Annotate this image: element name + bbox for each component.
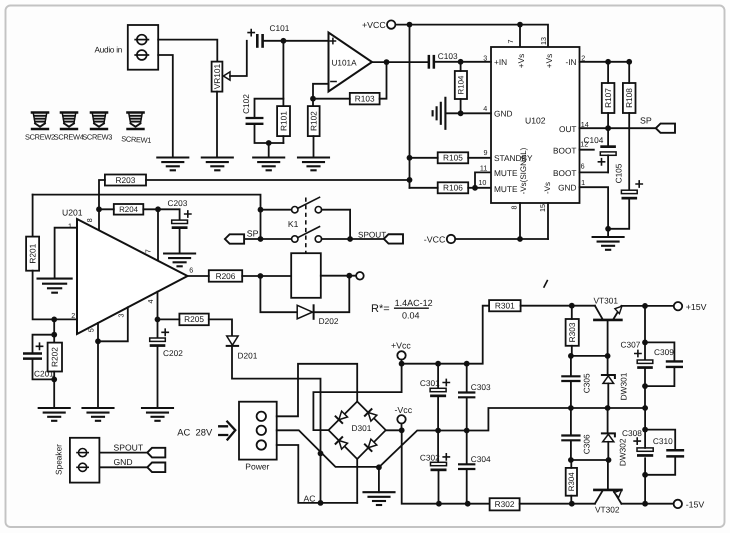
svg-text:DW301: DW301 [619,372,629,400]
svg-text:SCREW2: SCREW2 [25,132,55,141]
svg-text:K1: K1 [288,219,299,229]
wire +Vcc stem [401,360,403,364]
potentiometer VR101 [212,62,223,92]
wire R102 bottom to ground [313,136,315,157]
wire R304 stem top [570,460,572,468]
resistor R302 [490,498,520,510]
dashed actuator link [305,198,307,254]
wire R108 stem to C105 [628,113,630,191]
screw SCREW4 [61,113,77,130]
connector Audio in [95,25,159,70]
capacitor C304 [459,431,491,504]
tag GND speaker [147,463,165,473]
capacitor C310 [653,436,683,457]
wire R107 stem bottom [607,113,609,128]
wire -Vcc stem [401,424,403,431]
svg-text:C202: C202 [163,348,183,358]
resistor R101 [277,106,290,136]
node SP lower [258,236,264,242]
svg-text:C102: C102 [241,94,251,114]
node SPOUT [347,236,353,242]
svg-text:U102: U102 [525,116,546,126]
wire pin7 drop [519,25,521,47]
wire lower contact [244,238,292,240]
resistor R206 [209,270,242,282]
svg-text:4: 4 [146,300,155,304]
terminal +VCC [362,20,395,30]
capacitor C305 [562,356,591,408]
svg-text:7: 7 [144,249,153,253]
ground R102 [298,158,329,171]
op-amp U201 [77,219,188,334]
capacitor C103 [428,51,458,69]
wire R204 left [99,208,114,210]
wire pin8 stem [98,209,100,230]
wire C310 branch bottom [645,458,675,475]
svg-text:3: 3 [483,53,487,62]
wire D202 to coil out [314,276,350,313]
svg-text:C104: C104 [584,135,604,145]
terminal +Vcc [391,341,411,360]
wire R302 to VT302 [520,503,595,505]
arrow AC input [219,422,235,440]
wire R103 left [313,98,350,100]
node R104 gnd pin4 [458,110,464,116]
node R104 top [458,59,464,65]
svg-text:-IN: -IN [565,57,576,67]
svg-text:DW302: DW302 [618,438,628,466]
svg-text:C301: C301 [420,378,440,388]
node D201 AC [318,500,324,506]
resistor R205 [179,314,208,326]
screw SCREW3 [91,113,107,130]
node R202 top [51,332,57,338]
wire power pin1 to bridge AC [277,364,358,417]
wire C309 branch bottom [645,368,674,386]
wire pin1 U201 [55,228,77,279]
ground C102/R101 [253,158,284,171]
ground VR101 [202,158,233,171]
wire audio pin2 to ground [158,55,173,158]
node bus R105 [407,155,413,161]
wire pin4 GND [445,112,491,114]
node bus R203 [407,177,413,183]
svg-text:9: 9 [484,148,488,157]
node +Vcc [399,361,405,367]
wire R303 stem top [571,306,573,319]
wire R304 stem bottom [570,496,572,504]
wire pin3 [98,307,128,341]
ground power mid [364,492,395,505]
svg-text:C103: C103 [438,51,458,61]
svg-text:R107: R107 [603,88,613,108]
svg-text:R*=: R*= [371,303,390,315]
zener DW302 [602,408,628,466]
capacitor C303 [459,364,491,431]
svg-text:R201: R201 [27,243,37,263]
wire VT302 emitter rail [621,503,673,505]
wire R201 top [32,195,34,237]
wire R107 stem top [607,62,609,83]
wire pin11 jog [475,172,491,187]
node zener node left [568,353,574,359]
svg-text:SP: SP [247,229,259,239]
wire upper contact [261,209,292,211]
wire pin15 bottom [547,203,549,239]
capacitor C302 [420,431,450,504]
node C304 bottom [465,501,471,507]
wire R204 right [143,208,179,210]
node DW302 bottom [606,457,612,463]
svg-text:C309: C309 [654,347,674,357]
svg-text:MUTE: MUTE [494,184,518,194]
wire R101 bottom [282,136,284,143]
svg-text:VR101: VR101 [212,64,222,90]
capacitor C104 [584,128,617,172]
IC U102 [491,47,580,203]
node R304 bottom [569,501,575,507]
wire pin4 stem [157,292,159,320]
node D201 diag [318,451,324,457]
wire R106 right pin10 [468,187,491,189]
wire D201 to AC [232,346,321,503]
svg-text:GND: GND [114,457,133,467]
node zener node right [605,353,611,359]
svg-text:R102: R102 [309,111,319,131]
wire R103 right to output [380,62,387,99]
node C307 C309 top [642,340,648,346]
svg-text:SPOUT: SPOUT [114,442,144,452]
wire bridge to -Vcc [386,429,402,431]
wire C309 branch top [645,342,674,360]
relay coil K1 [291,253,321,298]
wire pin14 OUT [580,127,656,129]
switch K1 upper [292,197,322,213]
wire to U102 ground [607,229,609,237]
wire node down to R101 [282,41,284,106]
node coil out [346,273,352,279]
svg-text:SP: SP [640,116,652,126]
svg-text:C310: C310 [653,436,673,446]
node R108 top [626,59,632,65]
resistor R107 [602,83,615,113]
svg-text:VT302: VT302 [595,505,620,515]
wire coil right [321,275,356,277]
svg-text:1: 1 [68,221,72,230]
wire R201 bottom to pin2 [33,271,77,320]
wire VT301 emitter rail [621,305,673,307]
svg-text:BOOT: BOOT [553,168,577,178]
node C306 R304 [568,457,574,463]
capacitor C309 [654,347,682,367]
svg-text:SCREW4: SCREW4 [54,132,84,141]
resistor R108 [623,83,636,113]
node C203 [155,206,161,212]
wire pin8 bottom [519,203,521,239]
wire D202 branch [260,276,297,312]
diode D202 [297,305,339,326]
resistor R104 [455,71,467,99]
wire VR101 wiper to C101 [230,41,247,76]
svg-text:C308: C308 [622,428,642,438]
node pin5 pin3 [95,338,101,344]
svg-text:6: 6 [189,266,193,275]
node C308 rail [642,501,648,507]
node C307 mid [642,405,648,411]
svg-text:GND: GND [558,183,576,193]
wire VR101 bottom to ground [216,92,218,158]
svg-text:+IN: +IN [494,57,507,67]
node -Vcc [399,427,405,433]
connector Power [239,402,277,472]
svg-text:1: 1 [581,178,585,187]
wire pin6 BOOT [580,171,609,173]
terminal -15V [674,500,705,510]
diode D301 lower-left [336,437,348,449]
svg-text:R302: R302 [495,499,515,509]
svg-text:R105: R105 [443,153,463,163]
node C307 C309 bottom [642,383,648,389]
node DW mid [605,405,611,411]
ground R202/C201 [39,408,70,421]
node C308 C310 top [642,427,648,433]
svg-text:U101A: U101A [332,58,358,67]
wire R202 to ground [53,372,55,409]
op-amp U101A [329,33,373,92]
wire -VCC [455,238,548,240]
svg-text:AC: AC [304,494,316,504]
wire R104 stem top [460,62,462,71]
svg-text:R202: R202 [50,347,60,367]
wire pin5 to ground [97,323,99,408]
node C303 bottom [464,428,470,434]
node pin7 top [517,22,523,28]
node R203 R204 pin8 [96,206,102,212]
svg-text:+Vs: +Vs [516,54,526,69]
capacitor C306 [562,408,591,460]
wire pin7 stem [157,209,159,260]
zener DW301 [602,356,629,408]
ground C203 [164,254,195,267]
svg-text:C304: C304 [471,454,491,464]
wire R205 left [158,318,180,320]
wire mid line [379,408,645,467]
svg-text:-Vs: -Vs [543,182,552,194]
wire base node lower [571,459,609,461]
capacitor C203 [168,198,191,253]
svg-text:D301: D301 [352,423,372,433]
bridge D301 frame [329,402,386,460]
wire minus drop to rail [402,430,490,503]
wire R105 right pin9 [468,157,491,159]
node mid ground [376,464,382,470]
wire power pin3 AC line [277,445,358,503]
svg-text:AC 28V: AC 28V [177,426,213,437]
svg-text:R304: R304 [567,472,576,491]
resistor R105 [438,152,469,163]
svg-text:SPOUT: SPOUT [358,230,386,239]
screw SCREW2 [32,113,48,130]
diode D201 [227,336,258,360]
wire R105 left [410,157,438,159]
svg-text:C101: C101 [270,23,290,33]
svg-text:13: 13 [539,37,548,45]
svg-text:R203: R203 [116,175,136,185]
svg-text:8: 8 [85,218,94,222]
wire pin2 node down [53,319,55,342]
ground U201 pin1 [38,279,72,293]
transistor VT302 [594,460,621,515]
resistor R103 [350,93,380,105]
svg-text:+15V: +15V [686,302,707,312]
wire pin2 -IN [580,61,630,63]
svg-text:R301: R301 [495,301,515,311]
svg-text:R206: R206 [216,271,236,281]
ground audio pin2 [157,158,188,171]
node R303 top [569,303,575,309]
svg-text:SCREW3: SCREW3 [82,132,112,141]
diode D301 upper-left [336,411,348,423]
node C301 bottom [435,428,441,434]
node OUT [605,125,611,131]
transistor VT301 [594,296,622,356]
svg-text:15: 15 [538,204,547,212]
svg-text:Audio in: Audio in [95,45,123,54]
resistor R304 [566,468,577,496]
wire standby bus [409,25,411,188]
svg-text:-15V: -15V [686,500,705,510]
capacitor C308 [622,408,653,475]
node SP [258,207,264,213]
tag SP right [656,124,675,133]
node C301 top [435,361,441,367]
svg-text:C306: C306 [582,434,592,454]
svg-text:C203: C203 [168,198,188,208]
node C101 output [281,38,287,44]
capacitor C301 [420,364,450,431]
svg-text:11: 11 [480,164,487,173]
wire R106 left [410,187,438,189]
capacitor C102 [241,94,283,143]
node R202 bottom [51,377,57,383]
wire bridge bottom AC [356,459,358,503]
screw SCREW1 [128,113,144,130]
node R206 out [258,273,264,279]
node C308 C310 bottom [642,472,648,478]
wire SP node down [260,210,262,239]
resistor R201 [26,237,39,271]
tag SPOUT right [384,234,403,243]
wire R301 to VT301 [521,305,595,307]
wire speaker GND [99,466,147,468]
wire U201 out [188,275,209,277]
wire R303 stem bottom [571,346,573,356]
svg-text:R106: R106 [443,183,463,193]
svg-text:OUT: OUT [559,124,577,134]
svg-text:R205: R205 [184,314,204,324]
tick mark [544,281,547,287]
ground chassis pin4 [433,98,446,129]
wire to mid ground [378,467,380,492]
svg-text:R103: R103 [355,93,375,103]
wire zener node [571,355,608,357]
node C305 mid [568,405,574,411]
wire R205 right [209,319,232,336]
wire pin12 stub [580,149,594,151]
resistor R202 [48,343,62,372]
node mute tie [472,185,478,191]
node R107 top [605,59,611,65]
svg-text:R104: R104 [457,75,466,94]
svg-text:D202: D202 [319,316,339,326]
node C307 top rail [642,303,648,309]
svg-text:8: 8 [509,206,518,210]
wire pin1 GND to gnd [580,187,609,229]
capacitor C201 [24,335,54,380]
wire switch out upper [322,210,351,239]
svg-text:D201: D201 [238,350,258,360]
resistor R203 [105,175,146,186]
svg-text:-Vs(SIGNAL): -Vs(SIGNAL) [519,147,528,194]
node pin2 [51,317,57,323]
wire R203 right to bus [146,179,410,181]
svg-text:-Vcc: -Vcc [395,405,413,415]
svg-text:C105: C105 [613,163,623,183]
svg-text:0.04: 0.04 [402,310,420,320]
node U102 ground [605,226,611,232]
wire speaker SPOUT [99,452,147,454]
diode D301 lower-right [365,439,377,451]
tag SP left [225,234,244,243]
svg-text:Speaker: Speaker [53,444,63,475]
wire plus rail [402,306,490,364]
resistor R301 [489,300,520,311]
wire C101 to op-amp [264,40,329,42]
wire power pin2 diagonal [277,430,379,467]
svg-text:GND: GND [494,108,512,118]
node U101A output [384,59,390,65]
wire C308 to rail [644,475,646,504]
terminal -Vcc [395,405,413,423]
wire R104 stem bottom [460,99,462,113]
resistor R102 [308,106,320,136]
svg-text:C303: C303 [471,382,491,392]
svg-text:7: 7 [506,40,515,44]
wire U101A output [372,61,428,63]
terminal +15V [674,302,707,312]
svg-text:R108: R108 [624,88,634,108]
terminal -VCC [424,234,455,244]
wire mute line [33,195,261,210]
resistor R106 [438,182,469,193]
svg-text:+VCC: +VCC [362,20,386,30]
svg-text:5: 5 [87,328,96,332]
switch K1 lower [292,227,322,243]
wire audio pin1 to VR101 [158,40,217,62]
ground U201 pin5 [83,408,114,421]
svg-text:MUTE: MUTE [494,168,518,178]
node C302 bottom [436,501,442,507]
svg-text:6: 6 [581,161,585,170]
svg-text:R101: R101 [278,111,288,131]
svg-text:4: 4 [483,104,487,113]
terminal coil out [356,272,364,280]
svg-text:SCREW1: SCREW1 [121,134,151,145]
tag SPOUT speaker [147,448,165,458]
wire pin3 +IN [435,61,491,63]
wire to ground C102/R101 [268,143,270,158]
node C303 top [464,361,470,367]
